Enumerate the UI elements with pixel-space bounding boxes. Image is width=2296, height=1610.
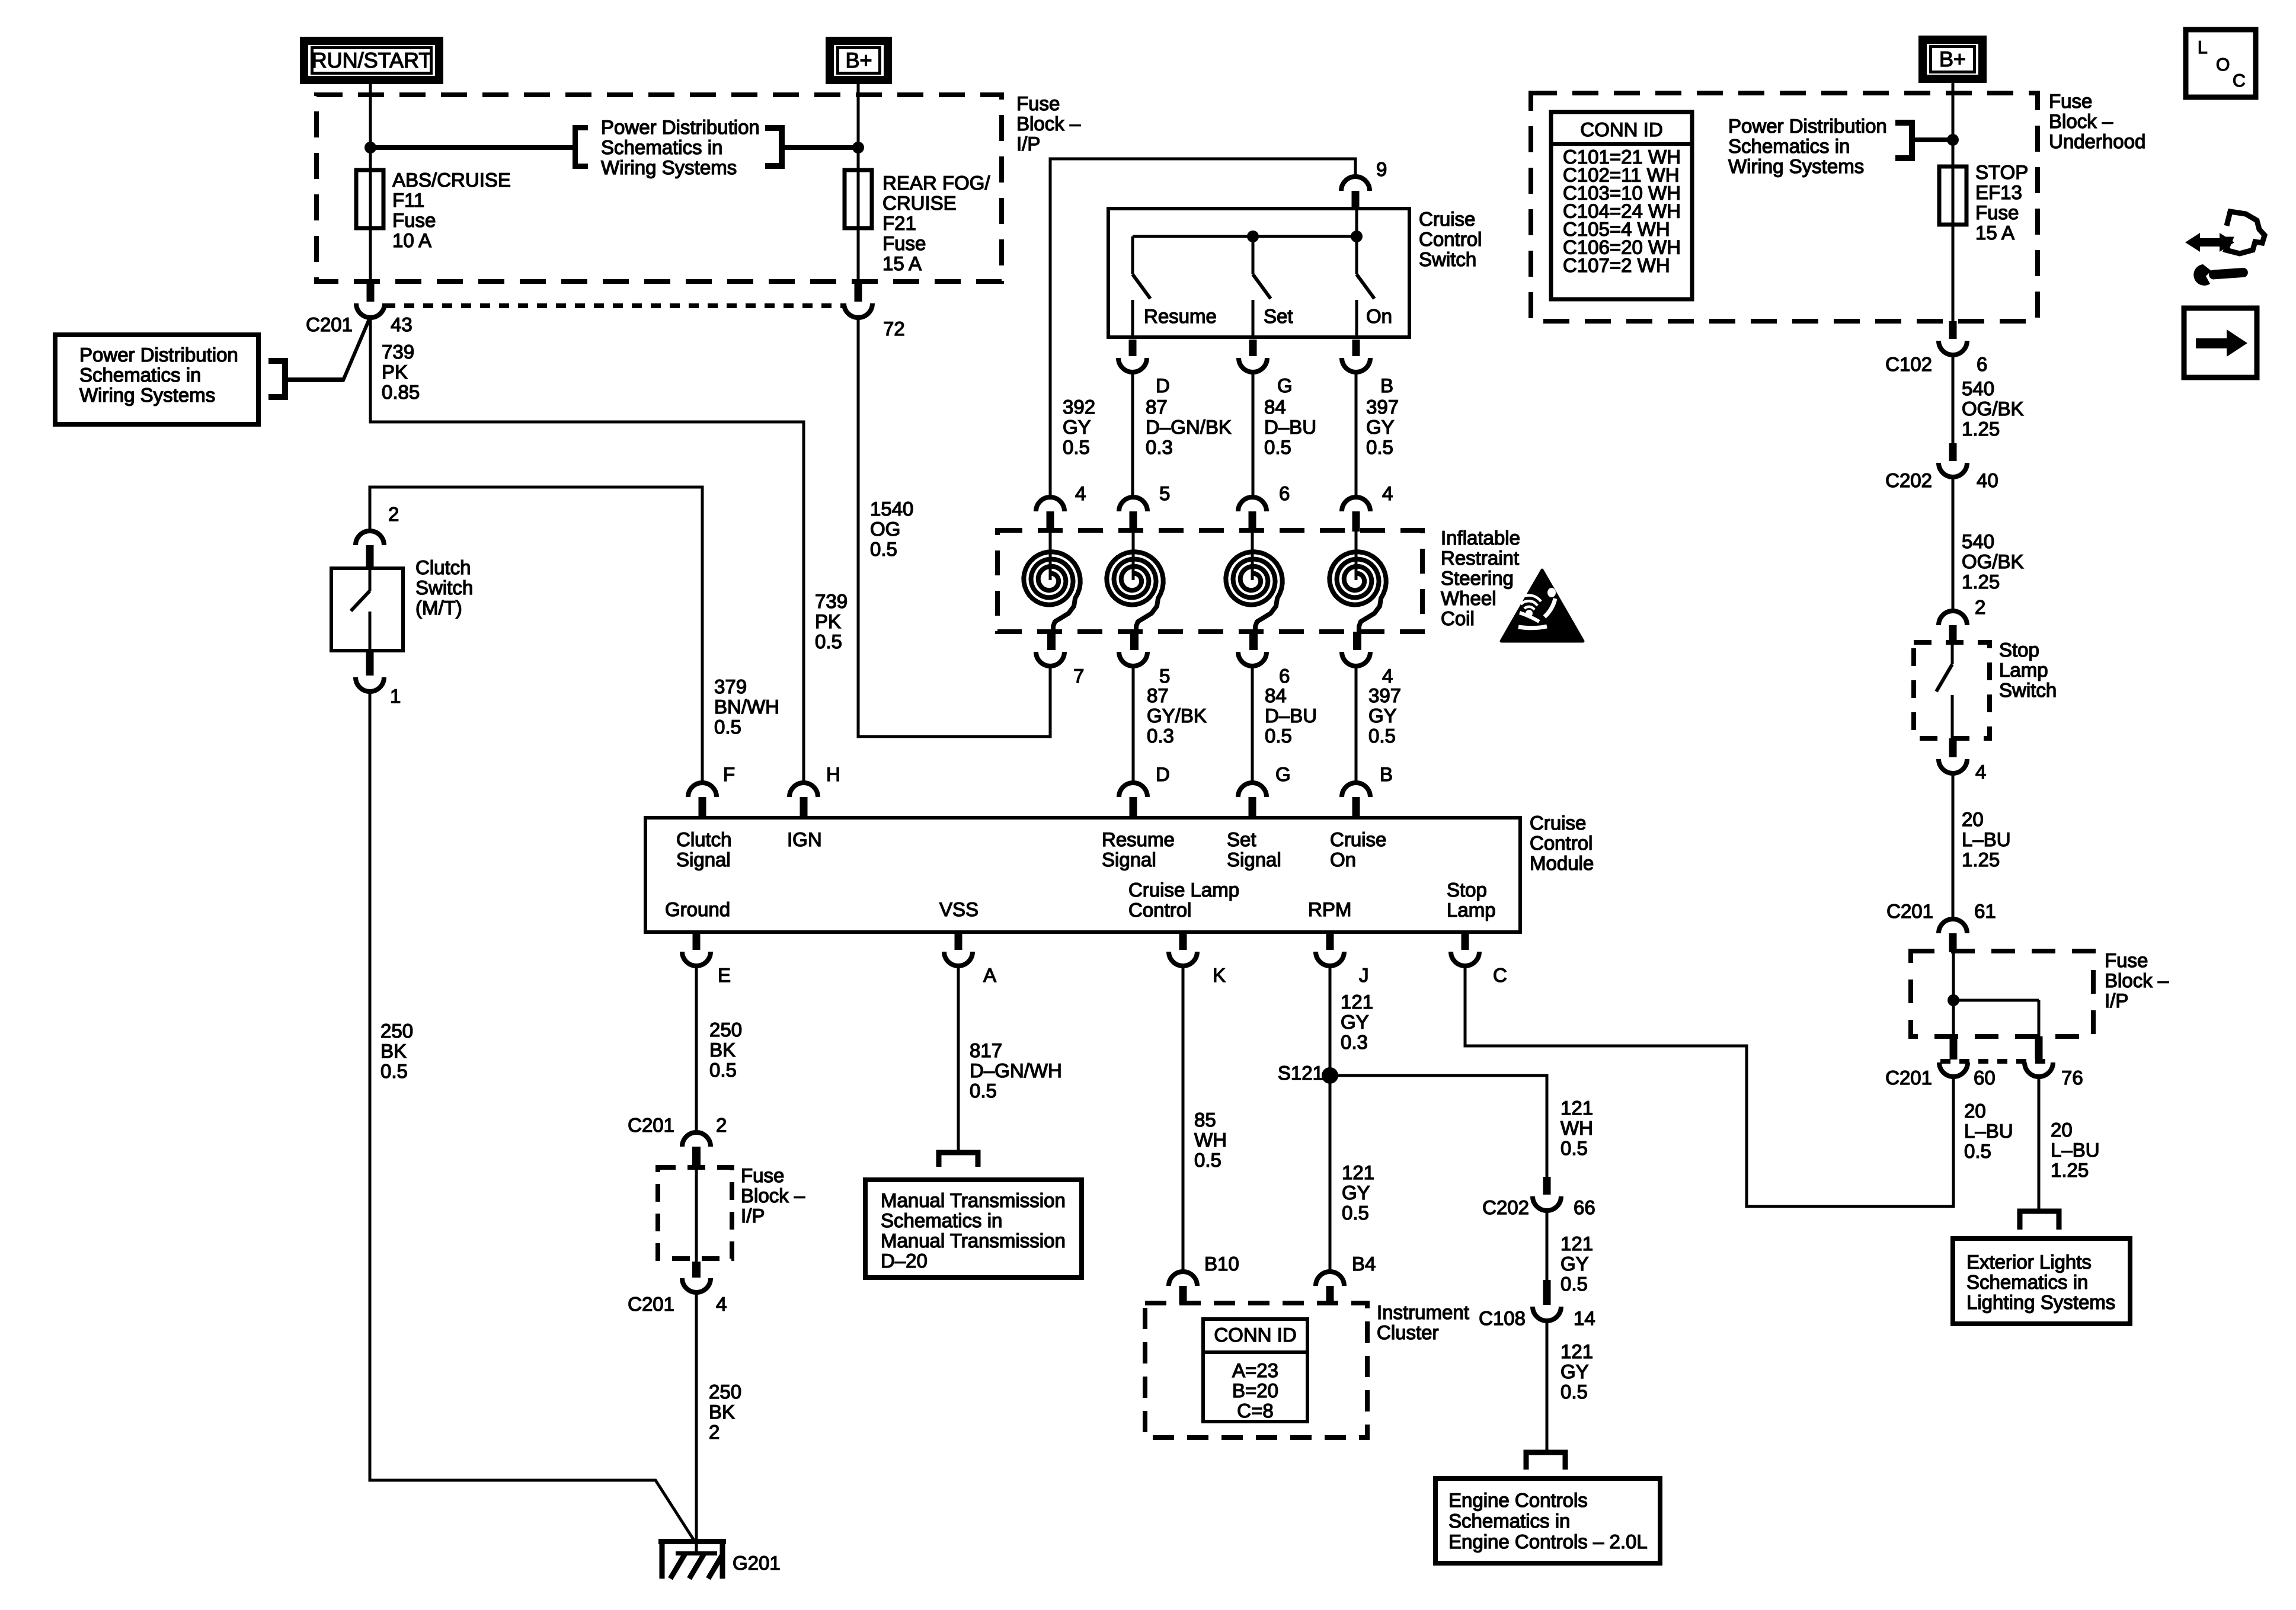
label 739 PK 0.85 [382, 341, 420, 403]
fuse block I/P dashed box (bottom right) [1911, 951, 2093, 1036]
label Resume [1144, 305, 1217, 327]
svg-text:F: F [723, 763, 735, 785]
connector clutch pin 1 stub [366, 651, 374, 676]
svg-text:Cruise: Cruise [1330, 828, 1386, 850]
svg-text:Switch: Switch [415, 577, 473, 598]
svg-text:250: 250 [380, 1020, 413, 1042]
svg-text:0.5: 0.5 [970, 1080, 997, 1102]
svg-text:I/P: I/P [741, 1205, 765, 1227]
stop lamp switch dashed box [1914, 642, 1990, 738]
svg-text:6: 6 [1279, 482, 1290, 504]
label 379 BN/WH 0.5 [714, 676, 779, 738]
label 121 GY 0.5 (engine) [1560, 1340, 1593, 1403]
label 250 BK 2 [709, 1381, 741, 1443]
wire 121 GY to engine controls [1546, 1321, 1549, 1452]
svg-text:On: On [1330, 849, 1356, 870]
svg-text:REAR FOG/: REAR FOG/ [882, 172, 990, 194]
wire clutch switch to module F [370, 487, 702, 784]
module label Ground [665, 898, 730, 920]
wire module C to fuse block I/P (stop lamp) [1465, 966, 1953, 1206]
svg-text:Schematics in: Schematics in [1448, 1510, 1570, 1532]
connector module pin H socket [789, 783, 818, 797]
connector C201-4 socket [682, 1278, 711, 1292]
svg-text:739: 739 [815, 590, 848, 612]
svg-text:739: 739 [382, 341, 414, 363]
label 739 PK 0.5 [815, 590, 848, 652]
svg-text:D–20: D–20 [881, 1250, 928, 1272]
svg-text:15 A: 15 A [882, 252, 922, 274]
svg-text:Resume: Resume [1102, 828, 1175, 850]
svg-text:15 A: 15 A [1975, 222, 2014, 244]
svg-text:Underhood: Underhood [2049, 130, 2145, 152]
label 84 D-BU 0.5 (lower) [1265, 684, 1317, 747]
label D (module pin) [1156, 763, 1170, 785]
svg-text:2: 2 [709, 1421, 720, 1443]
label B (switch pin) [1380, 375, 1393, 396]
label 87 D-GN/BK 0.3 [1146, 396, 1232, 458]
svg-text:Switch: Switch [1419, 248, 1476, 270]
svg-text:Schematics in: Schematics in [601, 136, 722, 158]
svg-text:87: 87 [1147, 684, 1169, 706]
svg-text:Ground: Ground [665, 898, 730, 920]
svg-text:121: 121 [1560, 1340, 1593, 1362]
label Fuse Block I/P (ground loop) [741, 1164, 805, 1227]
svg-text:Stop: Stop [1999, 639, 2039, 661]
wire 540 OG/BK C202 to stop lamp switch [1952, 477, 1955, 611]
label D (switch pin) [1156, 375, 1170, 396]
reference box Manual Transmission Schematics [865, 1180, 1082, 1278]
svg-text:Fuse: Fuse [2049, 90, 2092, 112]
coil spiral 2 [1107, 552, 1163, 632]
svg-text:VSS: VSS [939, 898, 978, 920]
svg-text:0.5: 0.5 [1560, 1273, 1588, 1295]
connector coil bottom 5 stub [1130, 632, 1139, 650]
svg-text:Fuse: Fuse [2105, 949, 2148, 971]
svg-text:66: 66 [1574, 1196, 1595, 1218]
label 20 L-BU 1.25 (exterior) [2051, 1119, 2100, 1181]
coil spiral 1 feed [1049, 532, 1052, 580]
label 4 (C201) [716, 1293, 727, 1315]
label Fuse Block Underhood [2049, 90, 2145, 152]
label C108 (14) [1479, 1307, 1526, 1329]
connector switch pin B stub [1352, 340, 1360, 356]
inline note Power Distribution (underhood) [1728, 115, 1887, 177]
label STOP EF13 Fuse 15 A [1975, 161, 2028, 244]
svg-text:5: 5 [1159, 482, 1170, 504]
label 2 (C201) [716, 1114, 727, 1136]
bracket right of reference box [268, 361, 285, 397]
inflatable restraint coil dashed box [997, 530, 1422, 632]
stop lamp switch lower contact [1951, 695, 1954, 738]
switch Resume blade [1133, 236, 1150, 299]
svg-text:D: D [1156, 375, 1170, 396]
connector stop lamp 4 socket [1939, 759, 1967, 773]
fuse block I/P dashed box (ground loop) [658, 1167, 732, 1259]
label J (module pin) [1359, 964, 1369, 986]
module label IGN [787, 828, 822, 850]
svg-text:0.5: 0.5 [1560, 1381, 1588, 1403]
connector module pin B socket [1342, 783, 1370, 797]
connector module pin K socket [1169, 952, 1197, 966]
svg-text:B: B [1380, 375, 1393, 396]
svg-text:7: 7 [1073, 665, 1084, 687]
wire 250 BK module E to C201-2 [695, 966, 698, 1134]
connector coil top 4 socket [1342, 497, 1370, 511]
svg-text:20: 20 [1962, 808, 1984, 830]
label 397 GY 0.5 (lower) [1368, 684, 1401, 747]
svg-text:Lamp: Lamp [1447, 899, 1496, 921]
connector clutch pin 2 stub [366, 545, 374, 569]
svg-text:4: 4 [1382, 482, 1393, 504]
svg-text:1.25: 1.25 [1962, 849, 2000, 870]
wire coil 5 to module D [1132, 666, 1135, 784]
connector clutch pin 2 socket [356, 531, 384, 545]
svg-text:6: 6 [1279, 665, 1290, 687]
connector C202-40 socket [1939, 463, 1967, 477]
label 250 BK 0.5 (clutch ground) [380, 1020, 413, 1082]
svg-text:0.5: 0.5 [1342, 1202, 1369, 1224]
svg-text:On: On [1366, 305, 1392, 327]
label 14 [1574, 1307, 1595, 1329]
svg-text:121: 121 [1560, 1233, 1593, 1254]
wire inside fuse block (stop lamp) [1953, 952, 2039, 1036]
svg-text:Manual Transmission: Manual Transmission [881, 1189, 1066, 1211]
svg-text:Steering: Steering [1441, 567, 1514, 589]
svg-text:0.5: 0.5 [815, 630, 842, 652]
svg-text:Schematics in: Schematics in [1966, 1271, 2088, 1293]
switch On contact [1355, 300, 1358, 337]
connector module pin E socket [682, 952, 711, 966]
svg-text:2: 2 [388, 503, 399, 525]
label 20 L-BU 1.25 (switch) [1962, 808, 2011, 870]
connector module pin E stub [693, 932, 701, 950]
svg-text:D–GN/BK: D–GN/BK [1146, 416, 1232, 438]
svg-text:Cluster: Cluster [1377, 1321, 1439, 1343]
label Clutch Switch (M/T) [415, 556, 473, 619]
label Instrument Cluster [1377, 1301, 1469, 1343]
coil spiral 3 [1226, 552, 1282, 632]
svg-text:B+: B+ [1939, 47, 1966, 71]
connector C201-76 socket [2025, 1062, 2053, 1077]
connector 9 stub [1352, 191, 1360, 210]
svg-text:0.3: 0.3 [1341, 1031, 1368, 1053]
svg-text:C202: C202 [1482, 1196, 1529, 1218]
svg-text:397: 397 [1366, 396, 1399, 418]
svg-text:Lamp: Lamp [1999, 659, 2048, 681]
ground G201 [658, 1539, 726, 1579]
svg-text:Block –: Block – [741, 1185, 805, 1206]
svg-text:OG/BK: OG/BK [1962, 550, 2024, 572]
svg-text:2: 2 [1975, 596, 1985, 618]
cruise control switch box [1108, 209, 1409, 337]
switch Set blade [1253, 236, 1271, 299]
icon LOC box [2186, 30, 2256, 97]
svg-text:0.85: 0.85 [382, 381, 420, 403]
svg-text:Clutch: Clutch [676, 828, 732, 850]
connector coil top 6 socket [1238, 497, 1267, 511]
svg-text:OG: OG [870, 518, 900, 540]
connector C201-43 stub [367, 282, 375, 302]
svg-text:GY: GY [1368, 705, 1397, 726]
svg-text:Restraint: Restraint [1441, 547, 1519, 569]
svg-text:Lighting Systems: Lighting Systems [1966, 1291, 2115, 1313]
label 76 [2061, 1067, 2083, 1089]
label 72 [883, 318, 905, 340]
svg-text:PK: PK [815, 610, 841, 632]
destination bracket exterior lights [2020, 1211, 2059, 1230]
wire 85 WH module K to B10 [1182, 966, 1185, 1272]
connector C201-4 stub [692, 1262, 701, 1278]
reference box Power Distribution Schematics in Wiring Systems [55, 335, 258, 424]
svg-text:0.5: 0.5 [380, 1060, 408, 1082]
svg-text:WH: WH [1194, 1129, 1227, 1151]
svg-text:Signal: Signal [1227, 849, 1281, 870]
svg-text:0.5: 0.5 [1264, 436, 1291, 458]
svg-text:Manual Transmission: Manual Transmission [881, 1230, 1066, 1251]
svg-text:540: 540 [1962, 530, 1994, 552]
label 1540 OG 0.5 [870, 498, 913, 560]
wire 121 WH splice to C202-66 [1330, 1076, 1547, 1177]
svg-text:OG/BK: OG/BK [1962, 398, 2024, 420]
instrument cluster dashed box [1145, 1303, 1367, 1438]
label 4 (stop lamp) [1975, 761, 1986, 783]
label 121 GY 0.5 (to B4) [1342, 1161, 1374, 1224]
svg-text:84: 84 [1264, 396, 1286, 418]
connector module pin G socket [1238, 783, 1267, 797]
label 392 GY 0.5 [1063, 396, 1095, 458]
label 2 (clutch pin) [388, 503, 399, 525]
label 87 GY/BK 0.3 [1147, 684, 1207, 747]
coil spiral 1 [1024, 552, 1080, 632]
svg-text:Control: Control [1419, 228, 1482, 250]
connector C201-2 socket [682, 1132, 711, 1147]
connector module pin F socket [688, 783, 717, 797]
svg-text:1: 1 [390, 685, 401, 707]
svg-text:GY/BK: GY/BK [1147, 705, 1207, 726]
wire 739 PK from C201-43 to module IGN H [370, 318, 804, 784]
svg-text:BK: BK [380, 1040, 407, 1062]
svg-text:B=20: B=20 [1232, 1379, 1278, 1401]
wire bracket to STOP feed [1915, 137, 1953, 142]
svg-text:C: C [2233, 71, 2246, 91]
wire 84 D-BU to coil [1252, 372, 1255, 498]
svg-text:1.25: 1.25 [2051, 1159, 2089, 1181]
cruise control module box [645, 818, 1520, 932]
svg-text:O: O [2216, 55, 2230, 75]
connector clutch pin 1 socket [356, 677, 384, 692]
svg-text:0.5: 0.5 [1366, 436, 1393, 458]
wire 250 BK 2 to ground [695, 1292, 698, 1553]
svg-text:C107=2 WH: C107=2 WH [1563, 254, 1670, 276]
label 2 (stop lamp) [1975, 596, 1985, 618]
label 60 [1974, 1067, 1996, 1089]
label C201 (61) [1886, 900, 1933, 922]
svg-text:GY: GY [1560, 1253, 1589, 1275]
svg-text:C: C [1493, 964, 1507, 986]
label 66 [1574, 1196, 1595, 1218]
module label Stop Lamp [1447, 879, 1496, 921]
svg-text:GY: GY [1366, 416, 1395, 438]
label 40 (C202) [1977, 469, 1998, 491]
connector C102-6 stub [1949, 321, 1957, 339]
connector coil top 4 stub [1047, 511, 1054, 532]
svg-text:G201: G201 [733, 1552, 781, 1574]
wire reference box to C201-43 [288, 316, 370, 382]
label Cruise Control Switch [1419, 208, 1482, 270]
svg-text:E: E [718, 964, 731, 986]
wire 817 D-GN/WH module A [957, 966, 960, 1152]
connector coil bottom 4 socket [1342, 652, 1370, 666]
module label Cruise Lamp Control [1128, 879, 1239, 921]
connector module pin C stub [1462, 932, 1469, 950]
wire 87 D-GN/BK to coil [1131, 372, 1134, 498]
svg-text:Signal: Signal [1102, 849, 1156, 870]
svg-text:B4: B4 [1352, 1253, 1376, 1275]
svg-text:0.5: 0.5 [870, 538, 897, 560]
module label RPM [1308, 898, 1351, 920]
label C102 (6) [1885, 353, 1932, 375]
svg-text:Instrument: Instrument [1377, 1301, 1469, 1323]
svg-text:20: 20 [2051, 1119, 2073, 1141]
label G (switch pin) [1277, 375, 1293, 396]
module label VSS [939, 898, 978, 920]
wire 20 L-BU to C201-61 [1952, 773, 1955, 919]
label 1 (clutch pin) [390, 685, 401, 707]
svg-text:F21: F21 [882, 212, 916, 234]
svg-text:250: 250 [709, 1381, 741, 1403]
svg-text:C201: C201 [1886, 900, 1933, 922]
svg-text:Block –: Block – [2049, 110, 2113, 132]
connector B10 stub [1179, 1286, 1187, 1304]
svg-text:C202: C202 [1885, 469, 1932, 491]
wire 397 GY to coil [1355, 372, 1358, 498]
label 61 [1974, 900, 1996, 922]
stop lamp switch blade [1936, 642, 1952, 692]
svg-text:Coil: Coil [1441, 607, 1475, 629]
connector C102-6 socket [1939, 341, 1967, 355]
svg-text:Fuse: Fuse [1016, 92, 1060, 114]
svg-text:EF13: EF13 [1975, 181, 2022, 203]
label S121 [1278, 1062, 1323, 1084]
svg-text:60: 60 [1974, 1067, 1996, 1089]
reference box Engine Controls Schematics [1435, 1478, 1660, 1563]
connector C201-61 socket [1939, 919, 1967, 933]
svg-text:397: 397 [1368, 684, 1401, 706]
label Cruise Control Module [1530, 812, 1594, 874]
svg-text:0.3: 0.3 [1146, 436, 1173, 458]
clutch switch lower contact [369, 612, 372, 651]
svg-text:A: A [983, 964, 996, 986]
svg-text:72: 72 [883, 318, 905, 340]
svg-text:RPM: RPM [1308, 898, 1351, 920]
connector coil top 6 stub [1249, 511, 1256, 532]
label 397 GY 0.5 (upper) [1366, 396, 1399, 458]
svg-text:5: 5 [1159, 665, 1170, 687]
wire RUN/START to fuse F11 [369, 84, 372, 283]
connector module pin A socket [944, 952, 973, 966]
label A (module pin) [983, 964, 996, 986]
label E (module pin) [718, 964, 731, 986]
svg-text:540: 540 [1962, 377, 1994, 399]
svg-text:Fuse: Fuse [882, 232, 926, 254]
svg-text:G: G [1275, 763, 1291, 785]
connector C202-66 socket [1533, 1196, 1561, 1211]
svg-text:GY: GY [1560, 1361, 1589, 1382]
svg-text:Fuse: Fuse [741, 1164, 784, 1186]
connector 9 socket [1341, 177, 1370, 191]
connector B4 socket [1316, 1272, 1344, 1286]
svg-text:BK: BK [709, 1039, 736, 1061]
svg-text:I/P: I/P [2105, 990, 2128, 1012]
svg-text:Fuse: Fuse [392, 209, 436, 231]
connector module pin B stub [1352, 797, 1360, 819]
wire bracket to node on F21 feed [785, 145, 858, 150]
svg-text:C=8: C=8 [1237, 1400, 1273, 1422]
svg-text:250: 250 [709, 1019, 742, 1041]
svg-text:Power Distribution: Power Distribution [1728, 115, 1887, 137]
label 121 GY 0.5 (C202-C108) [1560, 1233, 1593, 1295]
svg-text:L–BU: L–BU [1964, 1120, 2013, 1142]
connector module pin A stub [955, 932, 962, 950]
svg-text:Wiring Systems: Wiring Systems [1728, 155, 1864, 177]
svg-text:Control: Control [1530, 832, 1593, 854]
svg-text:Engine Controls – 2.0L: Engine Controls – 2.0L [1448, 1531, 1648, 1553]
label Fuse Block I/P (bottom right) [2105, 949, 2169, 1012]
label C201 (2) [628, 1114, 674, 1136]
svg-text:D–GN/WH: D–GN/WH [970, 1060, 1062, 1081]
connector switch pin B socket [1342, 358, 1370, 372]
svg-text:121: 121 [1341, 991, 1373, 1013]
connector C201-43 socket [356, 303, 385, 318]
svg-text:0.5: 0.5 [1194, 1149, 1221, 1171]
svg-text:43: 43 [391, 313, 412, 335]
svg-text:10 A: 10 A [392, 229, 431, 251]
junction node on F21 feed [852, 142, 864, 153]
svg-text:0.5: 0.5 [709, 1059, 737, 1081]
connector coil top 5 stub [1130, 511, 1137, 532]
label B (module pin) [1380, 763, 1393, 785]
label On [1366, 305, 1392, 327]
label 85 WH 0.5 [1194, 1109, 1227, 1171]
wire coil 4 to module B [1355, 666, 1358, 784]
inline note Power Distribution Schematics in Wiring Systems (top) [601, 116, 760, 178]
fuse block I/P dashed box (top left) [316, 95, 1002, 281]
junction node on F11 feed [364, 142, 376, 153]
svg-text:WH: WH [1560, 1117, 1593, 1139]
svg-text:817: 817 [970, 1039, 1002, 1061]
switch Set contact [1252, 300, 1255, 337]
junction node set [1247, 231, 1259, 242]
label 6 (C102) [1977, 353, 1987, 375]
power label RUN/START [300, 37, 443, 84]
wire switch common from coil pin 4 to On (9) [1050, 159, 1355, 498]
connector stop lamp 4 stub [1949, 738, 1957, 757]
svg-text:1.25: 1.25 [1962, 418, 2000, 440]
svg-text:Schematics in: Schematics in [1728, 135, 1850, 157]
destination bracket manual transmission [939, 1153, 978, 1167]
clutch switch blade [351, 568, 370, 611]
svg-text:CONN ID: CONN ID [1214, 1324, 1296, 1346]
label Inflatable Restraint Steering Wheel Coil [1441, 527, 1520, 629]
svg-text:L–BU: L–BU [2051, 1139, 2100, 1161]
connector switch pin D socket [1118, 358, 1147, 372]
connector C202-66 stub [1543, 1177, 1551, 1195]
svg-text:Signal: Signal [676, 849, 731, 870]
svg-text:0.5: 0.5 [1964, 1140, 1991, 1162]
module label Clutch Signal [676, 828, 732, 870]
svg-text:1540: 1540 [870, 498, 913, 520]
label 121 GY 0.3 [1341, 991, 1373, 1053]
